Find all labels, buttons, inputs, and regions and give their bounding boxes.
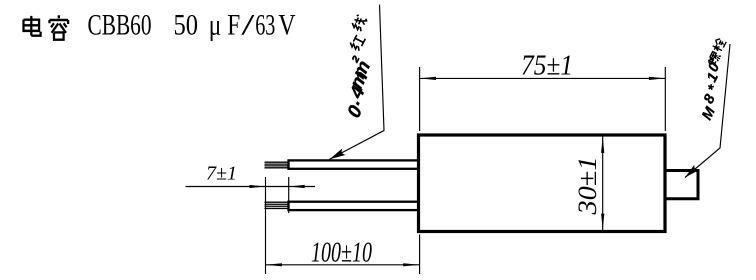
leader arrowhead at bolt [685, 165, 699, 177]
top lead wire strands [265, 162, 289, 168]
bottom lead wire insulation [289, 202, 419, 210]
top lead wire insulation [289, 160, 419, 168]
svg-text:/: / [241, 9, 255, 42]
dimension 75±1: dimension line [420, 77, 666, 79]
leader line for red wire label [330, 5, 385, 160]
label: bolt 螺 (luo) character [707, 51, 721, 66]
label 0.4mm2 red wire (rotated, per-glyph) [344, 53, 376, 121]
svg-text:7±1: 7±1 [206, 163, 237, 185]
leader line for bolt label [685, 44, 730, 178]
dimension 7±1: left arrowhead (outside, pointing right) [250, 185, 266, 188]
dimension 7±1: right arrowhead (outside, pointing left) [289, 185, 305, 188]
dimension 7±1: right extension line [288, 177, 290, 213]
title text: CBB60 50uF/63V [88, 9, 296, 42]
svg-text:V: V [278, 9, 296, 42]
dimension 75±1: right arrowhead [649, 77, 665, 80]
dimension 7±1: dimension line [186, 186, 316, 188]
title text: 容 (rong) character [50, 15, 69, 39]
bolt stub M8*10 on right side [665, 171, 698, 199]
svg-text:*: * [705, 82, 722, 96]
svg-text:30±1: 30±1 [573, 157, 602, 216]
label M8*10 bolt (rotated, per-glyph) [699, 60, 723, 123]
svg-text:50: 50 [174, 9, 199, 42]
svg-text:75±1: 75±1 [521, 50, 573, 82]
svg-text:CBB60: CBB60 [88, 9, 152, 42]
dimension 100±10: left arrowhead [266, 263, 282, 266]
dimension 100±10: extension lines [266, 177, 420, 274]
svg-text:μ: μ [209, 9, 222, 42]
svg-text:M: M [699, 104, 719, 123]
dimension 30±1: top arrowhead [601, 137, 604, 153]
dimension 30±1: dimension line inside body [602, 137, 604, 231]
leader arrowhead at top wire [330, 149, 346, 160]
dimension 75±1: extension lines [420, 67, 666, 131]
title text: 电 (dian) character [24, 16, 41, 36]
svg-text:F: F [227, 9, 240, 42]
dimension 30±1: bottom arrowhead [601, 214, 604, 230]
dimension 75±1: left arrowhead [420, 77, 436, 80]
dimension 100±10: right arrowhead [403, 263, 419, 266]
svg-text:100±10: 100±10 [311, 238, 372, 269]
label: red wire 线 (xian) character [351, 14, 367, 31]
label: red wire 红 (hong) character [349, 33, 366, 50]
dimension 100±10: dimension line [266, 264, 420, 266]
body outline of capacitor [419, 135, 666, 232]
bottom lead wire strands [265, 202, 289, 208]
svg-text:63: 63 [255, 9, 275, 42]
label: bolt 栓 (shuan) character [712, 37, 727, 53]
